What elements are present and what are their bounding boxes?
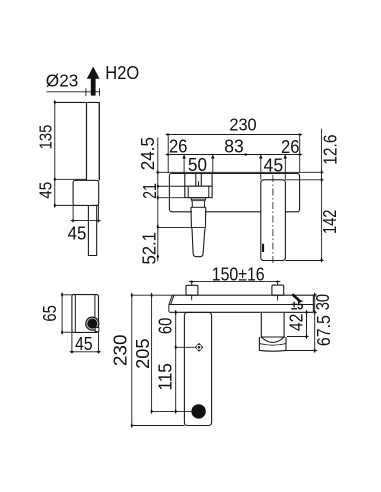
grip white fill xyxy=(192,209,205,229)
svg-text:Ø23: Ø23 xyxy=(46,71,79,91)
±5 diagonal xyxy=(292,294,301,302)
plan left dim line 230 xyxy=(131,295,133,425)
42 dim line xyxy=(306,312,308,336)
grip plan outer sides xyxy=(259,337,286,351)
up arrow 184.1 xyxy=(182,155,186,159)
bar left bevel xyxy=(169,295,174,304)
svg-text:205: 205 xyxy=(133,339,153,369)
body block (side) xyxy=(73,180,99,205)
spout tube (side) xyxy=(55,102,100,180)
up arrow 260.8 xyxy=(259,155,263,159)
dim line 26/83/26 xyxy=(168,154,300,156)
arrow H2O xyxy=(87,67,100,96)
tick 230 right xyxy=(297,133,303,135)
bar left cap xyxy=(168,305,170,312)
svg-text:45: 45 xyxy=(35,182,55,199)
svg-text:±5: ±5 xyxy=(291,298,304,312)
left tab xyxy=(186,285,198,295)
dim line Ø23 xyxy=(47,91,101,93)
bar bottom line xyxy=(169,311,313,313)
ticks right chain xyxy=(320,170,322,176)
handle extension lines up xyxy=(184,155,213,174)
ledge xyxy=(191,206,206,208)
extension marker xyxy=(176,346,195,348)
wall plate xyxy=(169,173,299,211)
svg-text:230: 230 xyxy=(110,335,130,367)
spout plan xyxy=(184,312,211,425)
tick left end xyxy=(165,153,171,155)
extension line at 179.3 xyxy=(55,178,87,180)
bar top line xyxy=(172,294,313,296)
ticks on left chain xyxy=(157,170,159,176)
65 dim line xyxy=(61,295,63,333)
seam line with extension xyxy=(158,185,212,187)
svg-text:12.6: 12.6 xyxy=(320,135,340,165)
extension 230 right xyxy=(299,135,301,173)
svg-text:83: 83 xyxy=(224,136,244,156)
extensions right xyxy=(313,294,317,296)
plan dim line 205 xyxy=(151,295,153,411)
extension dot xyxy=(152,410,192,412)
tick at 205.4 xyxy=(54,203,56,209)
screw marker diamond xyxy=(195,343,204,352)
neck cylinder xyxy=(192,202,204,207)
extension spout end xyxy=(132,425,185,427)
escutcheon xyxy=(185,186,212,197)
extension 230 left xyxy=(167,135,169,174)
grip chord + arc xyxy=(261,337,284,343)
plan right dim line 30/67.5 xyxy=(314,295,316,351)
outlet dot xyxy=(191,404,205,418)
spout extension lines up xyxy=(261,155,286,180)
right dim line 12.6/142 xyxy=(321,129,323,260)
notch xyxy=(95,328,99,332)
svg-text:65: 65 xyxy=(40,305,60,321)
grip bottom xyxy=(259,349,286,352)
escutcheon inner lines xyxy=(188,186,209,197)
extension at 197.7 xyxy=(158,197,185,199)
extension spout top right xyxy=(285,179,323,181)
screw marker circle xyxy=(196,345,201,350)
dim line 150 xyxy=(189,281,280,283)
svg-text:H2O: H2O xyxy=(105,63,139,83)
svg-text:42: 42 xyxy=(287,314,307,332)
grip plan inner sides xyxy=(261,312,284,338)
svg-text:52.1: 52.1 xyxy=(140,232,160,264)
tick 230 left xyxy=(165,133,171,135)
spout body front xyxy=(261,180,286,261)
tab center lines xyxy=(192,282,278,301)
svg-text:26: 26 xyxy=(281,137,299,157)
grip upper xyxy=(191,207,206,228)
svg-text:142: 142 xyxy=(320,210,340,235)
extension/body bottom line 205.4 xyxy=(55,204,99,206)
tick at 102.4 xyxy=(54,100,56,106)
stem tick xyxy=(198,181,200,186)
plan dim line 60/115 xyxy=(175,312,177,411)
grip plan white xyxy=(259,313,286,351)
45 width dim line xyxy=(73,220,98,222)
inner verticals xyxy=(75,295,95,333)
long 50/45 dim level line xyxy=(156,171,324,173)
svg-text:135: 135 xyxy=(35,125,55,150)
extension ticks Ø23 xyxy=(86,88,100,96)
outlet circle xyxy=(85,317,99,331)
65 extensions xyxy=(62,295,72,332)
left dim line chain xyxy=(157,138,159,262)
svg-text:21: 21 xyxy=(140,183,160,199)
spout centerline xyxy=(272,175,274,265)
spout clip tick xyxy=(262,244,264,252)
extension top left xyxy=(132,294,173,296)
up arrow 212.8 xyxy=(211,155,215,159)
svg-text:230: 230 xyxy=(229,115,257,135)
tick mid 245.8 xyxy=(243,153,249,155)
svg-text:67.5: 67.5 xyxy=(314,315,334,346)
ticks 150 xyxy=(189,280,195,282)
45 dim extensions xyxy=(72,332,99,353)
45 dim line xyxy=(72,351,99,353)
svg-text:30: 30 xyxy=(313,294,333,310)
bar right end xyxy=(312,295,314,312)
svg-text:115: 115 xyxy=(156,363,176,390)
dim line 230 xyxy=(168,134,300,136)
bar mid line xyxy=(169,304,314,306)
up arrow 285.2 xyxy=(283,155,287,159)
tick left xyxy=(70,219,76,221)
svg-text:60: 60 xyxy=(156,318,176,334)
tube over body xyxy=(87,102,100,180)
42 extension xyxy=(287,336,309,338)
svg-text:24.5: 24.5 xyxy=(138,137,158,170)
45 width dim extensions xyxy=(73,205,98,222)
neck trapezoid with rings xyxy=(191,198,206,203)
svg-text:45: 45 xyxy=(68,224,87,244)
right tab xyxy=(272,285,284,295)
tick right xyxy=(96,219,102,221)
dim line 135/45 xyxy=(54,102,56,205)
svg-text:45: 45 xyxy=(75,333,93,354)
tick right end xyxy=(297,153,303,155)
grip second arc xyxy=(259,344,286,346)
svg-text:26: 26 xyxy=(169,136,188,156)
handle block xyxy=(185,173,212,186)
extension spout bottom right xyxy=(285,260,323,262)
outlet body rect xyxy=(72,295,99,333)
tick at 179.3 xyxy=(54,177,56,183)
drop pipe (side) xyxy=(88,205,96,255)
handle stem xyxy=(196,173,202,186)
grip lower xyxy=(192,228,205,256)
extension at 227.2 / joint xyxy=(158,226,205,228)
